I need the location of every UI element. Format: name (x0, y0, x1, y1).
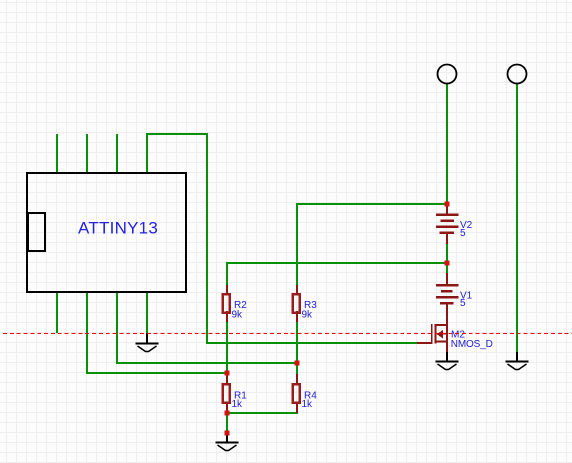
wire (516, 83, 518, 352)
wire (56, 291, 58, 333)
wire (147, 134, 417, 343)
wire (227, 263, 447, 285)
junction (445, 202, 450, 207)
resistor R3 (293, 285, 300, 322)
ground under right terminal (506, 352, 529, 370)
svg-text:9k: 9k (232, 309, 244, 320)
junction (225, 431, 230, 436)
svg-text:1k: 1k (302, 399, 314, 410)
wire (146, 291, 148, 334)
junction (225, 411, 230, 416)
wire (227, 412, 298, 414)
transistor M2 NMOS_D (417, 304, 448, 353)
IC U1 ATTINY13 (27, 173, 186, 292)
battery V1 (436, 273, 459, 304)
wire (56, 134, 58, 174)
svg-text:9k: 9k (302, 309, 314, 320)
wire (116, 134, 118, 174)
ground under R1 (216, 433, 239, 451)
wire (226, 322, 228, 373)
ground under M2 (436, 352, 459, 370)
wire (296, 322, 298, 374)
wire (446, 83, 448, 204)
wire (297, 204, 447, 285)
svg-text:5: 5 (460, 298, 466, 309)
junction (445, 261, 450, 266)
svg-text:1k: 1k (232, 399, 244, 410)
svg-text:NMOS_D: NMOS_D (451, 339, 493, 350)
wire (87, 291, 227, 373)
resistor R4 (293, 374, 300, 413)
wire (446, 243, 448, 273)
battery V2 (436, 204, 459, 244)
terminal circle right (508, 65, 527, 84)
resistor R1 (223, 374, 230, 413)
svg-text:5: 5 (460, 228, 466, 239)
junction (225, 371, 230, 376)
resistor R2 (223, 285, 230, 322)
svg-text:ATTINY13: ATTINY13 (78, 219, 158, 238)
wire (86, 134, 88, 174)
wire (117, 291, 297, 363)
ground under IC pin (136, 333, 159, 352)
junction (295, 361, 300, 366)
cursor guideline (0, 333, 572, 335)
wire (226, 413, 228, 433)
terminal circle left (438, 65, 457, 84)
